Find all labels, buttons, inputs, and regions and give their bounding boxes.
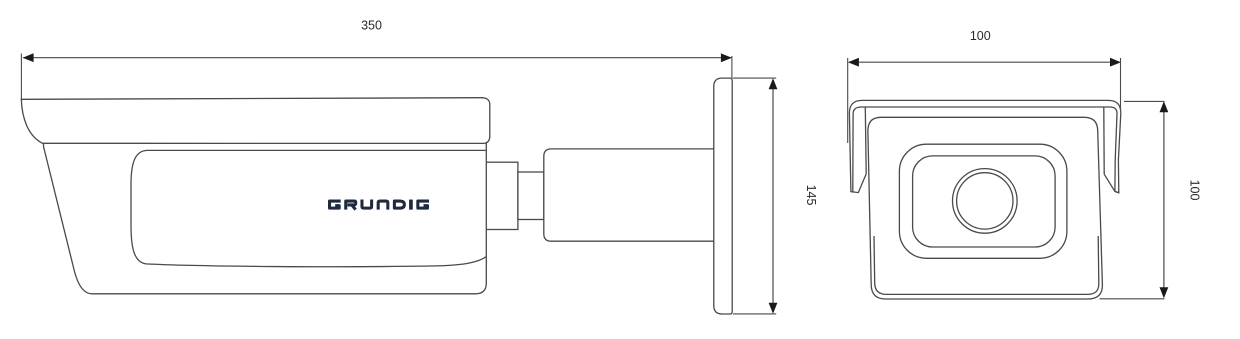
node arrow-350-left	[23, 53, 34, 62]
wire dim-145 line	[772, 80, 774, 312]
camera side sunshield	[21, 98, 490, 144]
wire ext-350-left	[20, 54, 22, 100]
node arrow-100top-right	[1110, 58, 1121, 67]
wire dim-100-top line	[850, 61, 1120, 63]
node arrow-100top-left	[848, 58, 859, 67]
camera side body	[44, 143, 487, 294]
camera front face outer	[868, 117, 1103, 299]
wire dim-350 line	[23, 57, 731, 59]
lens bezel outer	[899, 144, 1067, 258]
wire ext-100top-left	[847, 58, 849, 143]
camera side panel	[131, 150, 486, 266]
wire ext-350-right	[731, 56, 733, 79]
lens ring outer	[953, 169, 1018, 234]
camera side mount-block	[486, 162, 518, 229]
camera side arm	[544, 149, 716, 241]
camera front face inner	[874, 236, 1099, 294]
svg-text:350: 350	[361, 19, 382, 33]
camera side wall-plate	[714, 78, 732, 314]
node arrow-100right-top	[1160, 101, 1169, 112]
wire ext-100top-right	[1120, 58, 1122, 110]
wire ext-100right-top	[1124, 100, 1165, 102]
lens ring inner	[957, 173, 1013, 229]
camera side connector	[518, 172, 544, 220]
wire ext-145-top	[733, 77, 776, 79]
svg-text:145: 145	[804, 185, 818, 206]
lens bezel inner	[913, 156, 1056, 247]
wire dim-100-right line	[1163, 103, 1165, 298]
camera front shield flap-cut right	[1104, 174, 1119, 193]
node arrow-145-top	[769, 78, 778, 89]
svg-text:100: 100	[1188, 180, 1202, 201]
camera front shield flap inner edge left	[864, 108, 867, 174]
wire ext-145-bottom	[733, 313, 776, 315]
camera front sunshield band	[849, 100, 1120, 192]
wire ext-100right-bottom	[1100, 298, 1165, 300]
node arrow-350-right	[721, 53, 732, 62]
node arrow-100right-bottom	[1160, 287, 1169, 298]
logo GRUNDIG	[330, 200, 429, 210]
camera front shield flap-cut left	[851, 174, 866, 193]
svg-text:100: 100	[970, 29, 991, 43]
node arrow-145-bottom	[769, 303, 778, 314]
camera front shield flap inner edge right	[1103, 108, 1105, 175]
